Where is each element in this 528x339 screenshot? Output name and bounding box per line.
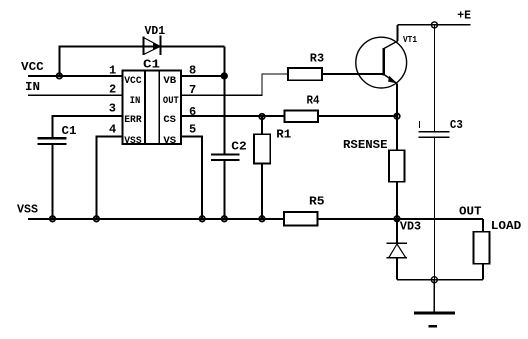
junction VSS-pin4 <box>94 216 99 221</box>
svg-text:1: 1 <box>109 63 116 77</box>
svg-text:4: 4 <box>109 123 116 137</box>
svg-text:R1: R1 <box>276 127 291 141</box>
junction CS/R1 <box>259 114 264 119</box>
capacitor C2 <box>211 155 240 160</box>
wire pin8 <box>181 75 224 77</box>
wire R4 to emitter column <box>318 115 397 117</box>
wire LOAD bottom <box>482 264 484 280</box>
junction bottom rail <box>431 277 437 283</box>
wire emitter column <box>396 83 398 150</box>
junction VSS-R1 <box>259 216 264 221</box>
wire C3 column top <box>433 25 435 131</box>
wire C3 column bottom <box>433 137 435 279</box>
wire VCC rail <box>28 75 122 77</box>
junction R4-emitter <box>394 114 399 119</box>
junction VCC <box>57 73 62 78</box>
ground <box>414 313 455 326</box>
wire R1 top <box>261 116 263 134</box>
svg-text:VSS: VSS <box>124 136 141 147</box>
diode VD3 <box>387 243 407 257</box>
diode VD1 <box>144 36 161 56</box>
svg-text:VSS: VSS <box>17 202 38 216</box>
svg-text:C3: C3 <box>450 118 463 132</box>
svg-text:VCC: VCC <box>124 76 141 87</box>
svg-text:R5: R5 <box>309 195 325 209</box>
junction VSS-C2 <box>222 216 227 221</box>
svg-text:+E: +E <box>457 9 471 23</box>
svg-text:CS: CS <box>163 115 176 126</box>
wire pin7 jog to R3 <box>181 74 288 95</box>
resistor LOAD <box>474 232 490 264</box>
svg-text:R4: R4 <box>307 93 320 107</box>
capacitor C1 <box>38 138 67 144</box>
svg-text:R3: R3 <box>310 51 324 65</box>
svg-text:VCC: VCC <box>21 60 44 74</box>
wire bottom rail <box>397 279 483 281</box>
IC U1 box <box>122 70 181 144</box>
svg-text:IN: IN <box>25 80 40 94</box>
wire ground stem <box>433 280 435 313</box>
svg-text:C1: C1 <box>62 124 77 138</box>
resistor RSENSE <box>389 150 405 182</box>
svg-text:OUT: OUT <box>459 204 482 218</box>
resistor R5 <box>284 212 318 226</box>
resistor R4 <box>285 110 319 122</box>
wire CS row left <box>181 115 285 117</box>
resistor R3 <box>288 68 322 80</box>
terminal +E <box>431 22 437 28</box>
svg-text:VB: VB <box>163 76 176 87</box>
resistor R1 <box>254 134 270 163</box>
transistor VT1 <box>356 37 407 88</box>
svg-text:VD3: VD3 <box>400 219 421 233</box>
svg-text:RSENSE: RSENSE <box>343 138 388 152</box>
junction OUT <box>394 216 399 221</box>
wire R3 to base <box>322 73 384 75</box>
svg-text:LOAD: LOAD <box>491 219 522 233</box>
svg-text:2: 2 <box>109 83 116 97</box>
wire collector up <box>397 25 399 41</box>
wire VSS rail <box>28 218 284 220</box>
wire C1 to VSS <box>52 144 54 219</box>
wire R1 bottom <box>261 163 263 218</box>
wire VD3 to bottom rail <box>396 258 398 280</box>
wire diode column <box>223 46 225 154</box>
wire VD3 column top <box>396 219 398 244</box>
wire top rail <box>398 24 471 26</box>
svg-text:VS: VS <box>163 136 176 147</box>
capacitor C3 <box>419 132 450 138</box>
wire pin3 to C1 <box>53 116 123 138</box>
svg-text:VD1: VD1 <box>145 24 166 38</box>
svg-text:ERR: ERR <box>124 115 141 126</box>
wire LOAD drop <box>482 219 484 232</box>
wire RSENSE to OUT row <box>396 182 398 219</box>
wire IN <box>28 94 122 96</box>
wire R5 to OUT corner <box>318 218 484 220</box>
wire riser VCC to diode row <box>58 46 60 77</box>
svg-text:C1: C1 <box>143 57 160 71</box>
svg-text:VT1: VT1 <box>403 34 417 45</box>
svg-text:3: 3 <box>109 101 116 115</box>
junction VSS-pin5 <box>200 216 205 221</box>
svg-text:5: 5 <box>189 123 196 137</box>
wire diode top row <box>59 45 224 47</box>
svg-text:C2: C2 <box>231 139 247 153</box>
junction VSS-C1 <box>50 216 55 221</box>
svg-text:OUT: OUT <box>163 96 179 107</box>
junction pin8 <box>222 73 227 78</box>
wire pin5 down <box>181 136 202 219</box>
capacitor C3 polarity mark <box>419 121 421 128</box>
svg-text:IN: IN <box>130 96 141 107</box>
wire pin4 down <box>96 136 122 219</box>
wire C2 to VSS <box>223 160 225 219</box>
